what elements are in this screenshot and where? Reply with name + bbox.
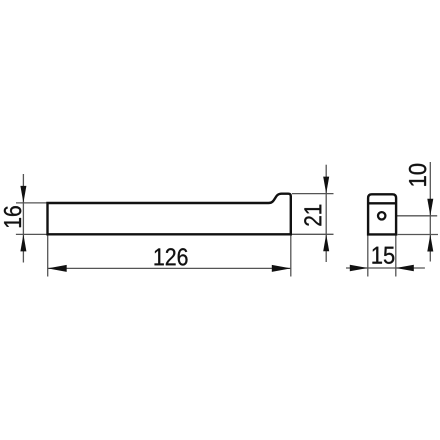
dimension 15 arrowhead right: [396, 265, 414, 271]
wall plate (side view outline): [368, 194, 396, 234]
mounting hole (side view): [378, 212, 385, 219]
dimension 21 label: [304, 205, 321, 226]
dimension 126 label: [155, 248, 188, 265]
dimension 15 arrowhead left: [350, 265, 368, 271]
dimension 126 extension line left: [47, 236, 49, 277]
dimension 126 arrowhead right: [272, 265, 291, 272]
dimension 16 label: [4, 206, 21, 227]
dimension 10 dimension line: [429, 162, 431, 262]
dimension 16 extension line bottom: [16, 233, 47, 235]
rail body (front view outline): [48, 194, 291, 235]
dimension 10 extension line at hole center: [383, 215, 437, 217]
dimension 10 label: [409, 164, 426, 186]
dimension 10 arrowhead bottom: [427, 235, 433, 252]
dimension 15 label: [372, 247, 394, 264]
dimension 15 extension line left: [367, 236, 369, 277]
dimension 21 arrowhead top: [323, 177, 329, 194]
dimension 10 arrowhead top: [427, 199, 433, 216]
dimension 21 extension line top: [292, 193, 334, 195]
dimension 16 arrowhead bottom: [20, 234, 26, 251]
dimension 15 dimension line: [346, 267, 425, 269]
dimension 16 dimension line: [22, 174, 24, 263]
dimension 126 extension line right: [290, 236, 292, 277]
dimension 126 dimension line: [48, 267, 291, 269]
dimension 21 arrowhead bottom: [323, 234, 329, 251]
dimension 16 extension line top: [16, 202, 47, 204]
dimension 21 dimension line: [325, 165, 327, 262]
dimension 126 arrowhead left: [48, 265, 67, 272]
wall plate step line (side view): [368, 202, 396, 204]
dimension 16 arrowhead top: [20, 186, 26, 203]
dimension 21 extension line bottom: [292, 233, 334, 235]
dimension 15 extension line right: [395, 236, 397, 277]
dimension 10 extension line bottom: [398, 234, 439, 236]
